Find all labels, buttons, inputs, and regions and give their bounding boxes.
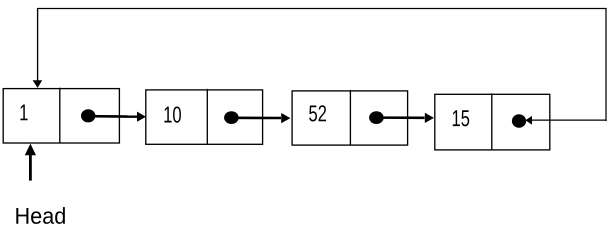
wire: feedback loop bottom horizontal segment into node4 dot: [532, 119, 607, 121]
wire: feedback loop right vertical segment: [605, 8, 607, 121]
node N4 divider: [491, 94, 493, 150]
node N4 box: [435, 94, 550, 150]
node N1 pointer dot: [81, 109, 95, 122]
node N4 pointer dot: [512, 114, 526, 128]
wire: arrow N3 -> N4: [376, 116, 424, 119]
divider top seam tick N4: [491, 93, 493, 94]
node N3 value label "52": [309, 105, 326, 121]
node N1 box: [3, 89, 119, 143]
node N2 value label "10": [164, 106, 181, 122]
label "Head": [16, 207, 65, 224]
divider top seam tick N1: [59, 87, 61, 88]
node N2 pointer dot: [224, 111, 239, 124]
node N3 box: [292, 91, 408, 145]
node N2 divider: [206, 90, 208, 144]
arrowhead into node1 top (points down): [33, 80, 43, 88]
wire: feedback loop left vertical segment: [37, 8, 39, 80]
divider top seam tick N2: [206, 89, 208, 90]
node N2 box: [146, 90, 263, 144]
arrowhead into node4 pointer dot (points left): [525, 116, 532, 125]
divider top seam tick N3: [349, 90, 351, 91]
wire: Head arrow pointing up into node N1 bottom: [29, 155, 32, 181]
node N4 value label "15": [453, 110, 469, 126]
wire: feedback loop top horizontal segment: [37, 8, 607, 10]
node N1 divider: [59, 89, 61, 143]
node N3 divider: [349, 91, 351, 145]
wire: arrow N2 -> N3: [231, 117, 281, 120]
node N1 value label "1": [20, 104, 27, 120]
wire: arrow N1 -> N2: [88, 115, 137, 118]
node N3 pointer dot: [369, 111, 384, 124]
